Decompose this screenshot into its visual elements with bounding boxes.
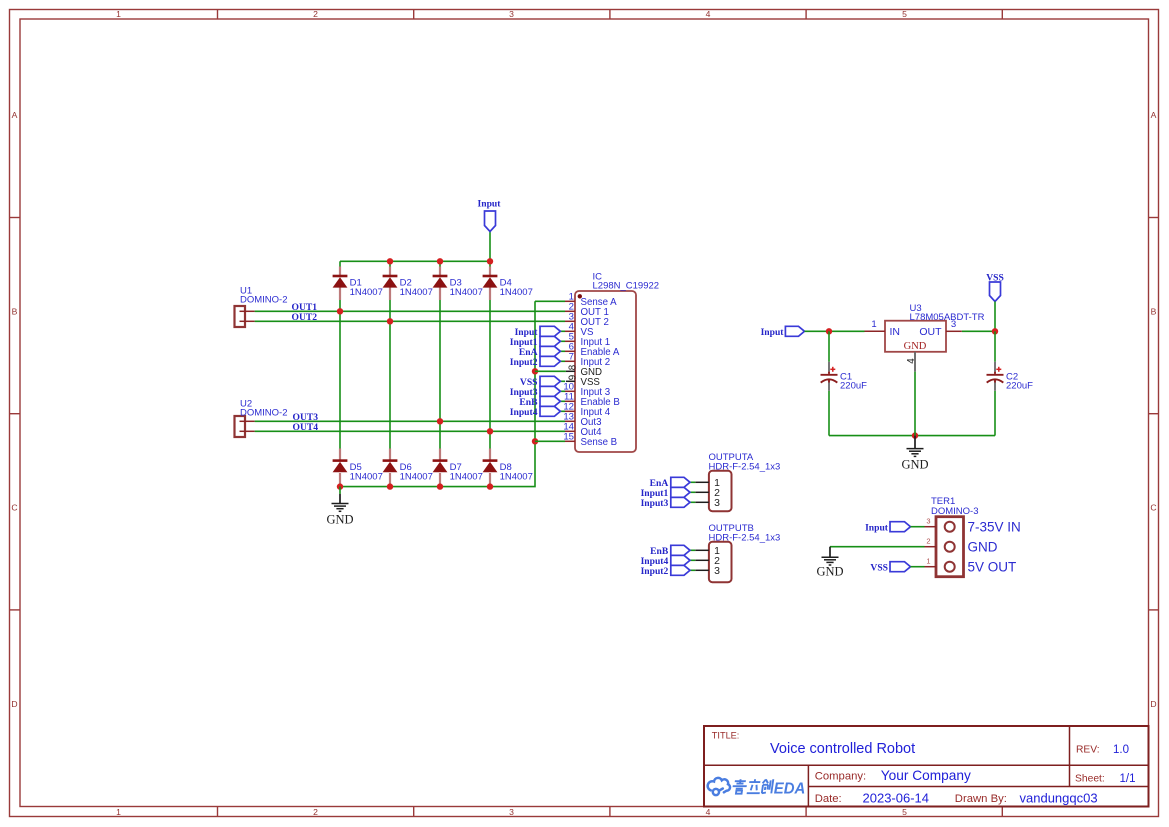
svg-text:5V OUT: 5V OUT [968, 560, 1017, 575]
svg-text:1N4007: 1N4007 [400, 287, 433, 298]
ground symbol (regulator) [914, 436, 916, 449]
junction dots on VS bus [387, 258, 493, 264]
junction dot OUT1-D1 [337, 308, 343, 314]
IC pin 6 Enable A [565, 342, 620, 358]
IC pin 8 GND [566, 364, 602, 378]
IC pin 1 Sense A [565, 292, 617, 308]
wire C2 bottom branch [994, 391, 996, 436]
svg-text:3: 3 [509, 807, 514, 817]
wire diode column D4-D8 [489, 261, 491, 267]
svg-text:REV:: REV: [1076, 745, 1100, 756]
svg-text:D: D [11, 699, 17, 709]
svg-text:2: 2 [926, 537, 930, 546]
svg-text:EDA: EDA [774, 780, 806, 797]
connector TER1 DOMINO-3 [931, 496, 979, 577]
IC pin 2 OUT 1 [565, 302, 609, 318]
svg-text:VSS: VSS [870, 563, 888, 574]
wire VSS drop [994, 302, 996, 332]
svg-text:4: 4 [906, 358, 917, 364]
svg-text:1N4007: 1N4007 [400, 472, 433, 483]
svg-text:B: B [12, 307, 18, 317]
net flag Input4 at IC pin 12 [510, 406, 565, 418]
svg-text:8: 8 [568, 364, 579, 370]
IC L298N_C19922 body [575, 272, 659, 453]
connector OUTPUTB HDR-F-2.54_1x3 [709, 523, 781, 582]
net flag Input2 at IC pin 7 [510, 356, 565, 368]
svg-text:1.0: 1.0 [1113, 744, 1129, 756]
svg-text:GND: GND [901, 458, 928, 472]
IC pin 15 Sense B [563, 432, 617, 448]
svg-text:D: D [1150, 699, 1156, 709]
diode D4 1N4007 [483, 267, 533, 301]
diode D3 1N4007 [433, 267, 483, 301]
svg-text:1: 1 [116, 9, 121, 19]
svg-text:Input: Input [865, 523, 889, 534]
svg-text:IN: IN [890, 326, 901, 338]
IC pin 10 Input 3 [563, 382, 610, 398]
svg-text:5: 5 [902, 807, 907, 817]
junction dot OUT3-D3 [437, 418, 443, 424]
U3 pin 4 GND [906, 352, 917, 436]
net flag Input3 at IC pin 10 [510, 386, 565, 398]
svg-text:OUT2: OUT2 [292, 312, 318, 323]
U3 pin 3 OUT [946, 319, 962, 331]
svg-text:Input: Input [761, 327, 785, 338]
OUTPUTA pin 3 net Input3 [641, 497, 721, 509]
svg-text:GND: GND [904, 341, 927, 352]
svg-text:L78M05ABDT-TR: L78M05ABDT-TR [910, 312, 985, 323]
wire OUT1 net [255, 310, 565, 312]
OUTPUTB pin 3 net Input2 [641, 565, 721, 577]
IC pin 5 Input 1 [565, 332, 610, 348]
svg-text:Date:: Date: [815, 793, 842, 805]
svg-text:1N4007: 1N4007 [500, 472, 533, 483]
svg-text:1N4007: 1N4007 [500, 287, 533, 298]
svg-text:Input3: Input3 [641, 498, 669, 509]
svg-text:Input2: Input2 [641, 566, 669, 577]
wire OUT4 net [255, 430, 565, 432]
junction dot Sense B pin15 [532, 438, 538, 444]
OUTPUTA pin 2 net Input1 [641, 487, 721, 499]
junction dot C1 top [826, 328, 832, 334]
net flag VSS at IC pin 9 [520, 376, 565, 388]
svg-text:Voice controlled Robot: Voice controlled Robot [770, 741, 915, 757]
svg-text:7: 7 [569, 352, 574, 363]
wire U3 OUT to C2 [962, 330, 995, 332]
diode D2 1N4007 [383, 267, 433, 301]
svg-text:Input4: Input4 [510, 407, 538, 418]
junction dot regulator ground [912, 432, 918, 438]
IC pin 14 Out4 [563, 422, 602, 438]
capacitor C2 220uF [987, 362, 1034, 392]
svg-text:1N4007: 1N4007 [350, 472, 383, 483]
svg-text:GND: GND [816, 565, 843, 579]
svg-text:B: B [1151, 307, 1157, 317]
net flag VSS (regulator) [986, 272, 1004, 301]
wire GND vertical at IC left [340, 301, 535, 486]
wire C2 top branch [994, 331, 996, 362]
OUTPUTA pin 1 net EnA [650, 477, 720, 489]
net flag Input1 at IC pin 5 [510, 336, 565, 348]
wire IC pin8 GND [535, 370, 566, 372]
title block texts [712, 731, 1136, 806]
svg-text:TITLE:: TITLE: [712, 731, 740, 741]
svg-text:Your Company: Your Company [881, 768, 971, 783]
svg-text:1N4007: 1N4007 [350, 287, 383, 298]
net flag Input at IC pin 4 [515, 326, 565, 338]
JLC EDA logo cloud icon [708, 778, 730, 795]
wire top VS bus [340, 260, 490, 262]
junction dot OUT2-D2 [387, 318, 393, 324]
svg-text:GND: GND [326, 513, 353, 527]
svg-text:1: 1 [871, 319, 876, 330]
TER1 pin 1 5V OUT [925, 557, 1017, 575]
svg-text:4: 4 [706, 9, 711, 19]
IC pin 7 Input 2 [565, 352, 610, 368]
svg-text:Drawn By:: Drawn By: [955, 793, 1007, 805]
voltage regulator U3 L78M05ABDT-TR [885, 303, 985, 352]
wire diode column D1-D5 [339, 261, 341, 267]
wire regulator ground bus [829, 435, 995, 437]
wire C1 bottom branch [828, 391, 830, 436]
connector U1 DOMINO-2 [235, 286, 288, 328]
svg-text:3: 3 [926, 517, 930, 526]
junction dots on bottom GND bus [337, 483, 493, 489]
diode D5 1N4007 [333, 449, 383, 487]
svg-text:C: C [11, 503, 17, 513]
diode D6 1N4007 [383, 449, 433, 487]
svg-text:Input2: Input2 [510, 357, 538, 368]
svg-text:3: 3 [509, 9, 514, 19]
svg-text:DOMINO-2: DOMINO-2 [240, 408, 288, 419]
IC pin 11 Enable B [564, 392, 620, 408]
net flag VSS (TER1) [870, 562, 924, 574]
svg-text:A: A [1151, 110, 1157, 120]
svg-text:DOMINO-2: DOMINO-2 [240, 295, 288, 306]
svg-text:4: 4 [706, 807, 711, 817]
capacitor C1 220uF [821, 362, 868, 392]
svg-text:2023-06-14: 2023-06-14 [863, 790, 930, 805]
svg-text:GND: GND [968, 540, 998, 555]
svg-text:7-35V IN: 7-35V IN [968, 520, 1021, 535]
wire OUT2 net [255, 320, 565, 322]
svg-text:1N4007: 1N4007 [450, 287, 483, 298]
wire diode column D3-D7 [439, 261, 441, 267]
svg-text:C: C [1150, 503, 1156, 513]
svg-text:A: A [12, 110, 18, 120]
wire Input to U3 IN [805, 330, 865, 332]
wire IC pin15 Sense B [535, 440, 565, 442]
TER1 pin 3 7-35V IN [925, 517, 1021, 535]
net flag Input (TER1) [865, 522, 924, 534]
svg-text:9: 9 [568, 375, 579, 380]
svg-text:3: 3 [714, 565, 720, 577]
svg-text:Sheet:: Sheet: [1075, 774, 1105, 785]
IC pin 13 Out3 [563, 412, 601, 428]
svg-text:2: 2 [313, 807, 318, 817]
svg-text:1: 1 [926, 557, 930, 566]
svg-text:3: 3 [951, 319, 956, 330]
junction dot OUT4-D4 [487, 428, 493, 434]
svg-text:Input: Input [478, 199, 502, 210]
wire C1 top branch [828, 331, 830, 362]
title block [704, 726, 1149, 807]
svg-text:Company:: Company: [815, 770, 867, 782]
IC pin 9 VSS [566, 375, 601, 388]
wire TER1 GND [830, 546, 925, 548]
net flag EnA at IC pin 6 [519, 346, 565, 358]
OUTPUTB pin 2 net Input4 [641, 555, 721, 567]
IC pin 12 Input 4 [563, 402, 610, 418]
IC pin 4 VS [565, 322, 594, 338]
wire diode column D2-D6 [389, 261, 391, 267]
wire Input drop to VS bus [489, 232, 491, 262]
diode D8 1N4007 [483, 449, 533, 487]
junction dot C2 top [992, 328, 998, 334]
svg-text:2: 2 [313, 9, 318, 19]
ground symbol (bridge) [326, 487, 353, 527]
junction dot GND pin8 [532, 368, 538, 374]
diode D7 1N4007 [433, 449, 483, 487]
OUTPUTB pin 1 net EnB [650, 545, 720, 557]
IC pin 3 OUT 2 [565, 312, 609, 328]
svg-text:OUT: OUT [919, 326, 942, 338]
JLC EDA logo chinese glyphs [732, 779, 774, 793]
svg-text:1N4007: 1N4007 [450, 472, 483, 483]
wire OUT3 net [255, 420, 565, 422]
connector U2 DOMINO-2 [235, 399, 288, 438]
net flag Input (top) [478, 199, 502, 232]
svg-text:1: 1 [116, 807, 121, 817]
svg-text:220uF: 220uF [840, 381, 867, 392]
net flag EnB at IC pin 11 [519, 396, 565, 408]
TER1 pin 2 GND [925, 537, 998, 555]
wire IC pin1 Sense A [535, 300, 565, 302]
svg-text:OUT4: OUT4 [293, 422, 319, 433]
svg-text:1/1: 1/1 [1120, 773, 1136, 785]
svg-text:3: 3 [714, 497, 720, 509]
diode D1 1N4007 [333, 267, 383, 301]
U3 pin 1 IN [865, 319, 886, 331]
connector OUTPUTA HDR-F-2.54_1x3 [709, 452, 781, 511]
svg-text:220uF: 220uF [1006, 381, 1033, 392]
net flag Input (regulator) [761, 326, 805, 338]
svg-text:DOMINO-3: DOMINO-3 [931, 506, 979, 517]
svg-text:5: 5 [902, 9, 907, 19]
svg-text:Sense B: Sense B [581, 437, 618, 448]
svg-text:vandungqc03: vandungqc03 [1020, 790, 1098, 805]
ground symbol (TER1) [829, 547, 831, 558]
svg-text:L298N_C19922: L298N_C19922 [593, 281, 660, 292]
